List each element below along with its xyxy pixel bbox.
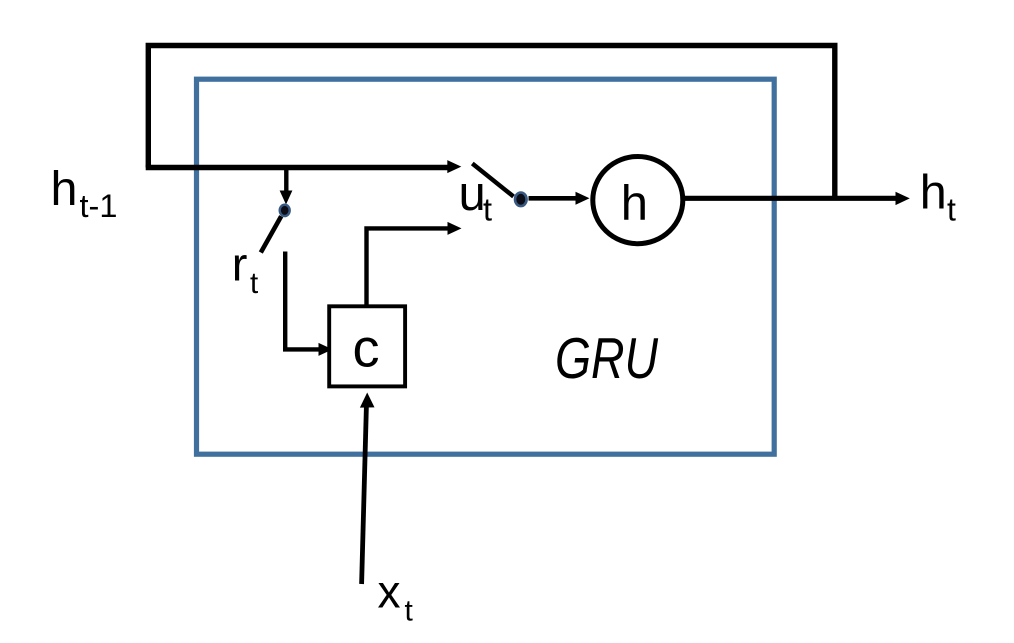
svg-text:t: t	[405, 594, 414, 627]
svg-text:h: h	[920, 165, 947, 219]
svg-text:t: t	[947, 192, 956, 228]
svg-text:t-1: t-1	[80, 188, 118, 224]
svg-text:r: r	[232, 237, 248, 290]
svg-text:t: t	[483, 191, 492, 227]
svg-text:u: u	[459, 167, 486, 221]
svg-text:x: x	[378, 566, 401, 618]
svg-text:t: t	[250, 267, 258, 300]
svg-text:GRU: GRU	[555, 327, 658, 391]
svg-text:h: h	[621, 176, 648, 230]
svg-text:h: h	[51, 162, 78, 216]
svg-text:c: c	[353, 319, 380, 379]
